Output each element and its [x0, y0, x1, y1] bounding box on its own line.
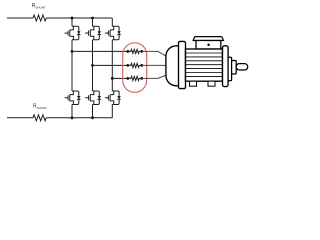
wire leg1 between Q1 and phase tap	[71, 40, 73, 52]
wire leg3 drain from top bus corner	[111, 18, 113, 26]
motor terminal box	[196, 41, 221, 50]
resistor shunt phase A	[126, 49, 143, 53]
node phase A tap	[71, 50, 74, 53]
node top bus leg2	[91, 17, 94, 20]
wire leg1 drain from top bus	[71, 18, 73, 26]
wire bottom DC- rail to bus	[46, 117, 112, 119]
transistor Q1 high-side leg1	[65, 26, 81, 40]
motor shaft neck	[232, 61, 237, 75]
motor terminal dot	[207, 44, 210, 47]
motor foot right	[208, 81, 215, 86]
motor body fins	[186, 53, 223, 76]
resistor shunt phase C	[126, 76, 143, 80]
wire leg2 drain from top bus	[92, 18, 94, 26]
wire motor lead phase B	[142, 64, 167, 66]
transistor Q2 high-side leg2	[85, 26, 101, 40]
motor bell end	[166, 46, 180, 86]
wire phase B from leg2 to shunt	[93, 64, 128, 66]
transistor Q3 high-side leg3	[105, 26, 121, 40]
resistor R_SHUNT bottom	[33, 115, 46, 121]
resistor R_SHUNT top	[33, 15, 46, 21]
motor shaft hub	[228, 57, 232, 81]
motor M1	[166, 37, 248, 89]
wire leg2 between Q2 and phase tap	[92, 40, 94, 91]
wire leg3 to bottom bus	[111, 105, 113, 118]
node top bus leg1	[71, 17, 74, 20]
wire leg3 between Q3 and phase tap	[111, 40, 113, 91]
wire leg1 to bottom bus	[71, 105, 73, 118]
transistor Q5 low-side leg2	[85, 91, 101, 105]
resistor shunt phase B	[126, 63, 143, 67]
node phase C tap	[111, 77, 114, 80]
wire top DC+ rail to bus	[46, 17, 112, 19]
wire leg1 between phase tap and Q4	[71, 51, 73, 91]
wire phase A from leg1 to shunt	[72, 50, 128, 52]
node phase B tap	[91, 64, 94, 67]
motor end bracket	[223, 46, 229, 87]
motor terminal box lid	[193, 37, 223, 41]
motor front plate	[179, 41, 186, 88]
wire bottom DC- rail left segment	[7, 117, 33, 119]
wire motor lead phase A	[142, 51, 168, 57]
wire phase C from leg3 to shunt	[112, 77, 128, 79]
transistor Q6 low-side leg3	[105, 91, 121, 105]
motor finned body	[186, 49, 223, 81]
motor foot left	[190, 81, 197, 86]
node bottom bus leg1	[71, 116, 74, 119]
highlight ellipse around in-line shunts	[123, 43, 147, 93]
wire motor lead phase C	[142, 75, 168, 79]
motor shaft	[236, 64, 248, 70]
node bottom bus leg2	[91, 116, 94, 119]
transistor Q4 low-side leg1	[65, 91, 81, 105]
wire top DC+ rail left segment	[7, 17, 33, 19]
wire leg2 to bottom bus	[92, 105, 94, 118]
